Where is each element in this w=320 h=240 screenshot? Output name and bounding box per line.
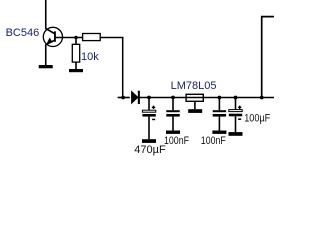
capacitor C3 top plate [213, 110, 226, 112]
node junction dot 470uF [147, 96, 151, 100]
wire rail to 470uF [148, 98, 150, 111]
svg-text:470µF: 470µF [134, 144, 166, 156]
wire 100nF first to ground [172, 117, 174, 131]
capacitor C1 top plate (hollow) [142, 110, 155, 112]
wire junction to 10k resistor [75, 38, 77, 45]
regulator U1 box [186, 94, 203, 101]
wire 470uF to ground [148, 117, 150, 140]
node junction dot rail/input [121, 96, 125, 100]
diode D1 cathode bar [138, 91, 140, 104]
wire 100nF second to ground [218, 117, 220, 131]
capacitor C1 bottom plate [142, 114, 155, 117]
svg-text:BC546: BC546 [6, 27, 40, 39]
diode D1 anode triangle [132, 91, 139, 103]
node junction dot output [260, 96, 264, 100]
transistor Q1 base bar [54, 31, 56, 42]
wire collector vertical [45, 0, 47, 29]
wire output up and right [261, 17, 274, 98]
wire emitter vertical [45, 44, 47, 65]
capacitor C2 top plate [166, 110, 179, 112]
svg-text:LM78L05: LM78L05 [171, 80, 217, 92]
wire collector diagonal inside transistor [45, 28, 54, 33]
capacitor C4 top plate (hollow) [229, 110, 242, 112]
ground (100nF second) [212, 131, 226, 134]
wire rail to 100nF second [218, 98, 220, 111]
wire resistor R1 to corner and down to rail [100, 38, 123, 98]
svg-text:100µF: 100µF [244, 112, 270, 124]
wire rail to 100nF first [172, 98, 174, 111]
ground (emitter) [39, 65, 53, 68]
capacitor C1 minus sign [152, 119, 155, 121]
node junction dot 100uF [234, 96, 238, 100]
capacitor C3 bottom plate [213, 114, 226, 117]
svg-text:10k: 10k [81, 51, 99, 63]
ground (470uF) [142, 139, 156, 143]
capacitor C4 bottom plate [229, 114, 242, 117]
regulator U1 ground pin wire [194, 101, 196, 109]
wire 100uF to ground [235, 116, 237, 132]
wire rail to 100uF [235, 98, 237, 110]
capacitor C4 minus sign [238, 118, 241, 120]
node junction dot 100nF first [171, 96, 175, 100]
resistor R1 horizontal box [83, 34, 101, 41]
ground (regulator) [188, 109, 202, 113]
transistor Q1 emitter arrow [47, 38, 52, 43]
node junction dot base/10k [74, 36, 78, 40]
node junction dot 100nF second [218, 96, 222, 100]
ground (100nF first) [166, 131, 180, 134]
svg-text:100nF: 100nF [201, 135, 226, 147]
capacitor C1 plus sign [152, 106, 155, 109]
wire rail main [138, 97, 274, 99]
capacitor C4 plus sign [238, 106, 241, 109]
wire 10k to ground [75, 62, 77, 69]
svg-text:100nF: 100nF [164, 135, 189, 147]
ground (100uF) [229, 132, 243, 136]
ground (10k resistor) [69, 69, 83, 72]
wire rail left stub [118, 97, 130, 99]
wire emitter diagonal inside transistor [46, 40, 55, 45]
resistor R2 10k vertical box [72, 44, 79, 62]
capacitor C2 bottom plate [166, 114, 179, 117]
transistor Q1 circle [43, 27, 62, 46]
wire base [56, 37, 83, 39]
